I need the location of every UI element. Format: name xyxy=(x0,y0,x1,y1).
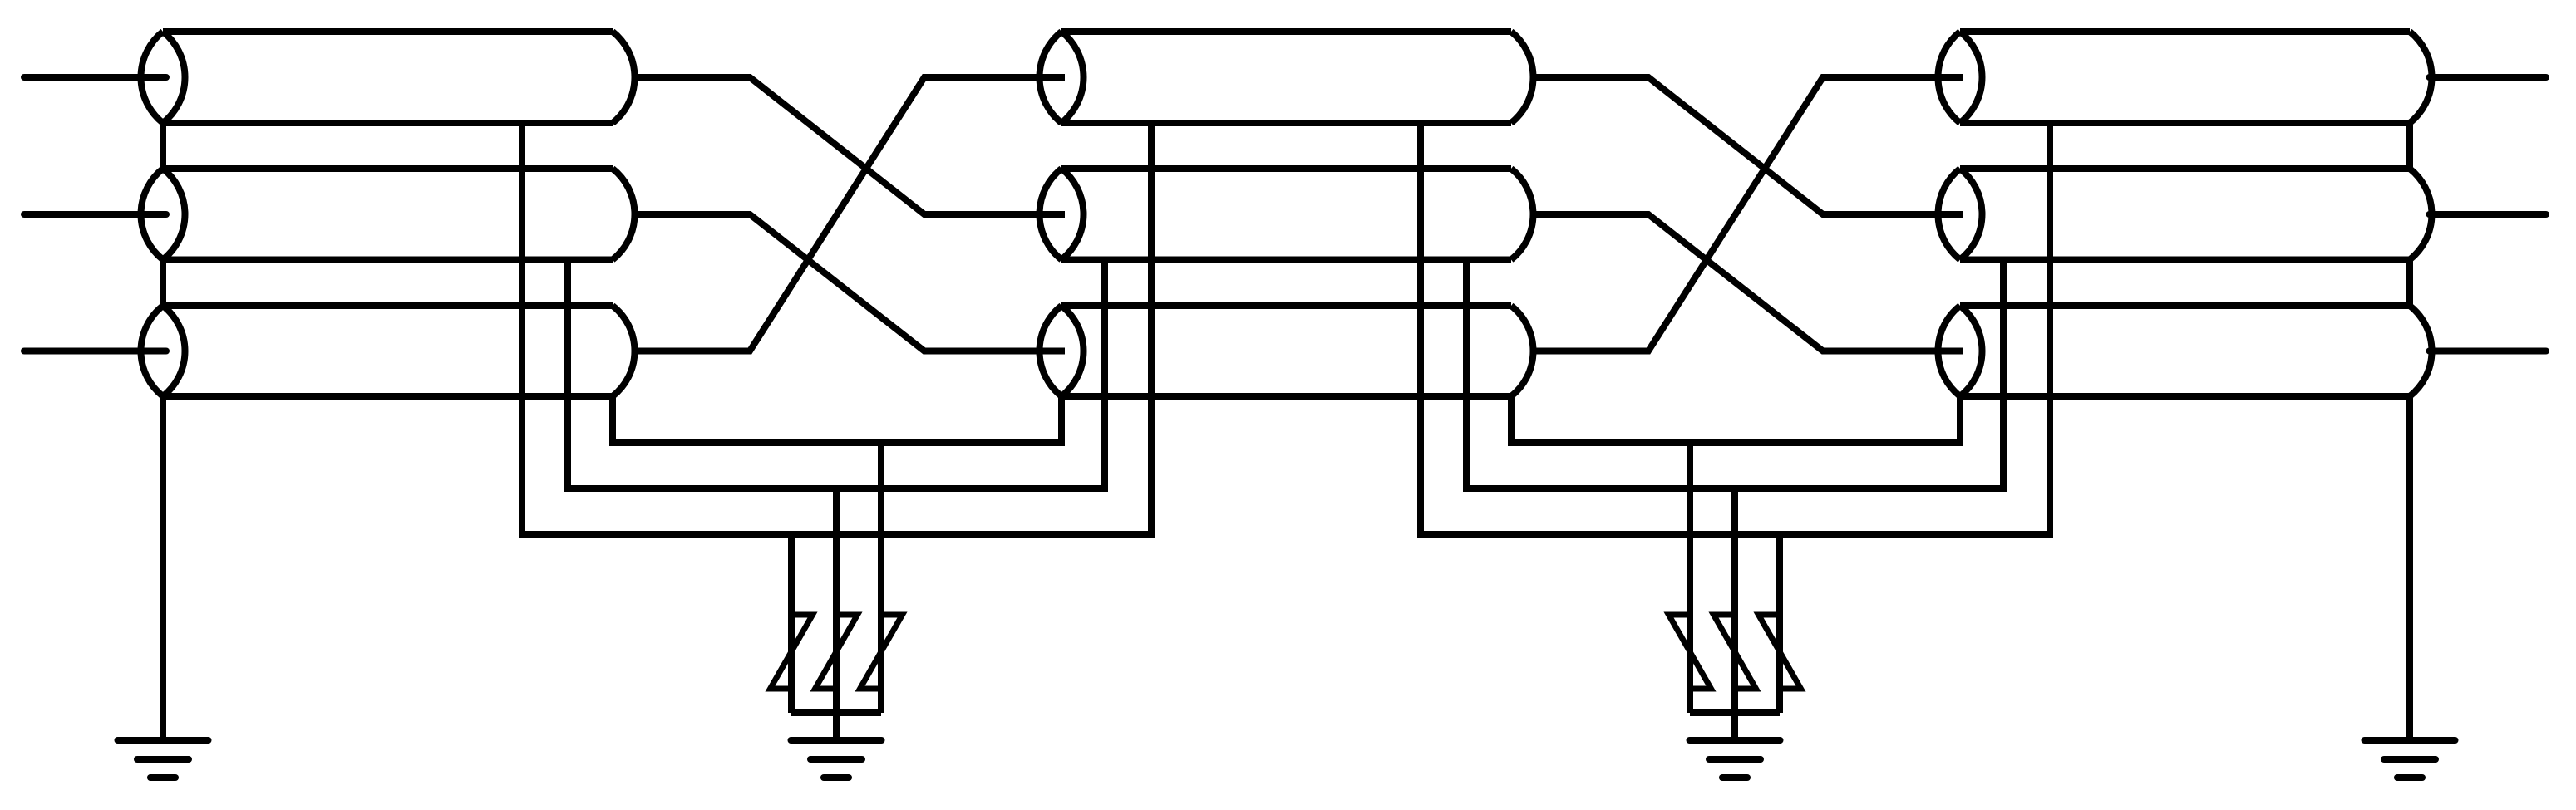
wire: joint 1 sheath bonding lead bus2 (phase L2 sheath, U-link) xyxy=(568,260,1105,489)
wire: joint 2 SVL common bar xyxy=(1690,709,1780,716)
cable segment W3C (section 3, phase L3): sheath cylinder xyxy=(1938,306,2431,396)
cable segment W1C (section 1, phase L3): sheath cylinder xyxy=(140,306,634,396)
cable segment W2B (section 2, phase L2): sheath cylinder xyxy=(1040,169,1534,260)
surge arrester SVL2a (sheath voltage limiter) xyxy=(1669,615,1712,689)
wire: joint 1 core link phase L2 to L3 position (transposition) xyxy=(633,214,1066,351)
surge arrester SVL2b (sheath voltage limiter) xyxy=(1714,615,1756,689)
wire: right-end sheath bond link L1-L2 xyxy=(2406,123,2413,169)
wire: right-end earthing conductor xyxy=(2406,396,2413,739)
cable segment W2C (section 2, phase L3): sheath cylinder xyxy=(1039,306,1533,396)
wire: output conductor L3 xyxy=(2430,348,2547,355)
wire: left-end sheath bond link L2-L3 xyxy=(160,260,166,307)
wire: joint 1 SVL common bar xyxy=(791,709,881,716)
wire: right-end sheath bond link L2-L3 xyxy=(2406,260,2413,307)
ground symbol left termination xyxy=(118,740,209,778)
wire: output conductor L1 xyxy=(2430,74,2547,81)
wire: left-end sheath bond link L1-L2 xyxy=(160,123,166,169)
wire: joint 1 core link phase L3 to L1 position (transposition) xyxy=(633,77,1066,351)
wire: input conductor L1 xyxy=(24,74,166,81)
wire: joint 2 core link phase L1 to L2 position (transposition) xyxy=(1531,77,1964,214)
ground symbol joint 1 xyxy=(791,740,882,778)
wire: joint 2 sheath bonding lead bus2 (phase L2 sheath, U-link) xyxy=(1466,260,2003,489)
wire: joint 2 earthing conductor xyxy=(1731,713,1738,739)
wire: joint 1 SVL lead 2 xyxy=(833,488,840,713)
cable segment W1A (section 1, phase L1): sheath cylinder xyxy=(141,32,635,123)
surge arrester SVL1c (sheath voltage limiter) xyxy=(860,615,903,689)
wire: joint 2 SVL lead 1 xyxy=(1687,443,1693,713)
wire: joint 2 sheath bonding lead bus1 (phase L3 sheath, U-link) xyxy=(1511,396,1960,443)
surge arrester SVL2c (sheath voltage limiter) xyxy=(1759,615,1801,689)
cable segment W3A (section 3, phase L1): sheath cylinder xyxy=(1938,32,2432,123)
wire: output conductor L2 xyxy=(2430,211,2547,218)
wire: left-end earthing conductor xyxy=(160,396,166,739)
wire: joint 2 core link phase L2 to L3 position (transposition) xyxy=(1531,214,1964,351)
wire: joint 2 SVL lead 2 xyxy=(1731,488,1738,713)
cable segment W1B (section 1, phase L2): sheath cylinder xyxy=(141,169,635,260)
wire: joint 1 SVL lead 1 xyxy=(788,534,795,713)
ground symbol joint 2 xyxy=(1690,740,1781,778)
wire: joint 1 earthing conductor xyxy=(833,713,840,739)
surge arrester SVL1a (sheath voltage limiter) xyxy=(771,615,813,689)
ground symbol right termination xyxy=(2365,740,2455,778)
wire: input conductor L2 xyxy=(24,211,166,218)
wire: joint 1 core link phase L1 to L2 position (transposition) xyxy=(633,77,1066,214)
cable segment W2A (section 2, phase L1): sheath cylinder xyxy=(1040,32,1534,123)
wire: joint 2 SVL lead 3 xyxy=(1776,534,1783,713)
wire: joint 1 sheath bonding lead bus3 (phase L1 sheath, U-link) xyxy=(522,123,1151,534)
cable segment W3B (section 3, phase L2): sheath cylinder xyxy=(1938,169,2432,260)
wire: joint 1 SVL lead 3 xyxy=(878,443,884,713)
wire: joint 1 sheath bonding lead bus1 (phase L3 sheath, U-link) xyxy=(613,396,1061,443)
surge arrester SVL1b (sheath voltage limiter) xyxy=(815,615,858,689)
wire: joint 2 sheath bonding lead bus3 (phase L1 sheath, U-link) xyxy=(1421,123,2050,534)
wire: input conductor L3 xyxy=(24,348,166,355)
wire: joint 2 core link phase L3 to L1 position (transposition) xyxy=(1531,77,1964,351)
